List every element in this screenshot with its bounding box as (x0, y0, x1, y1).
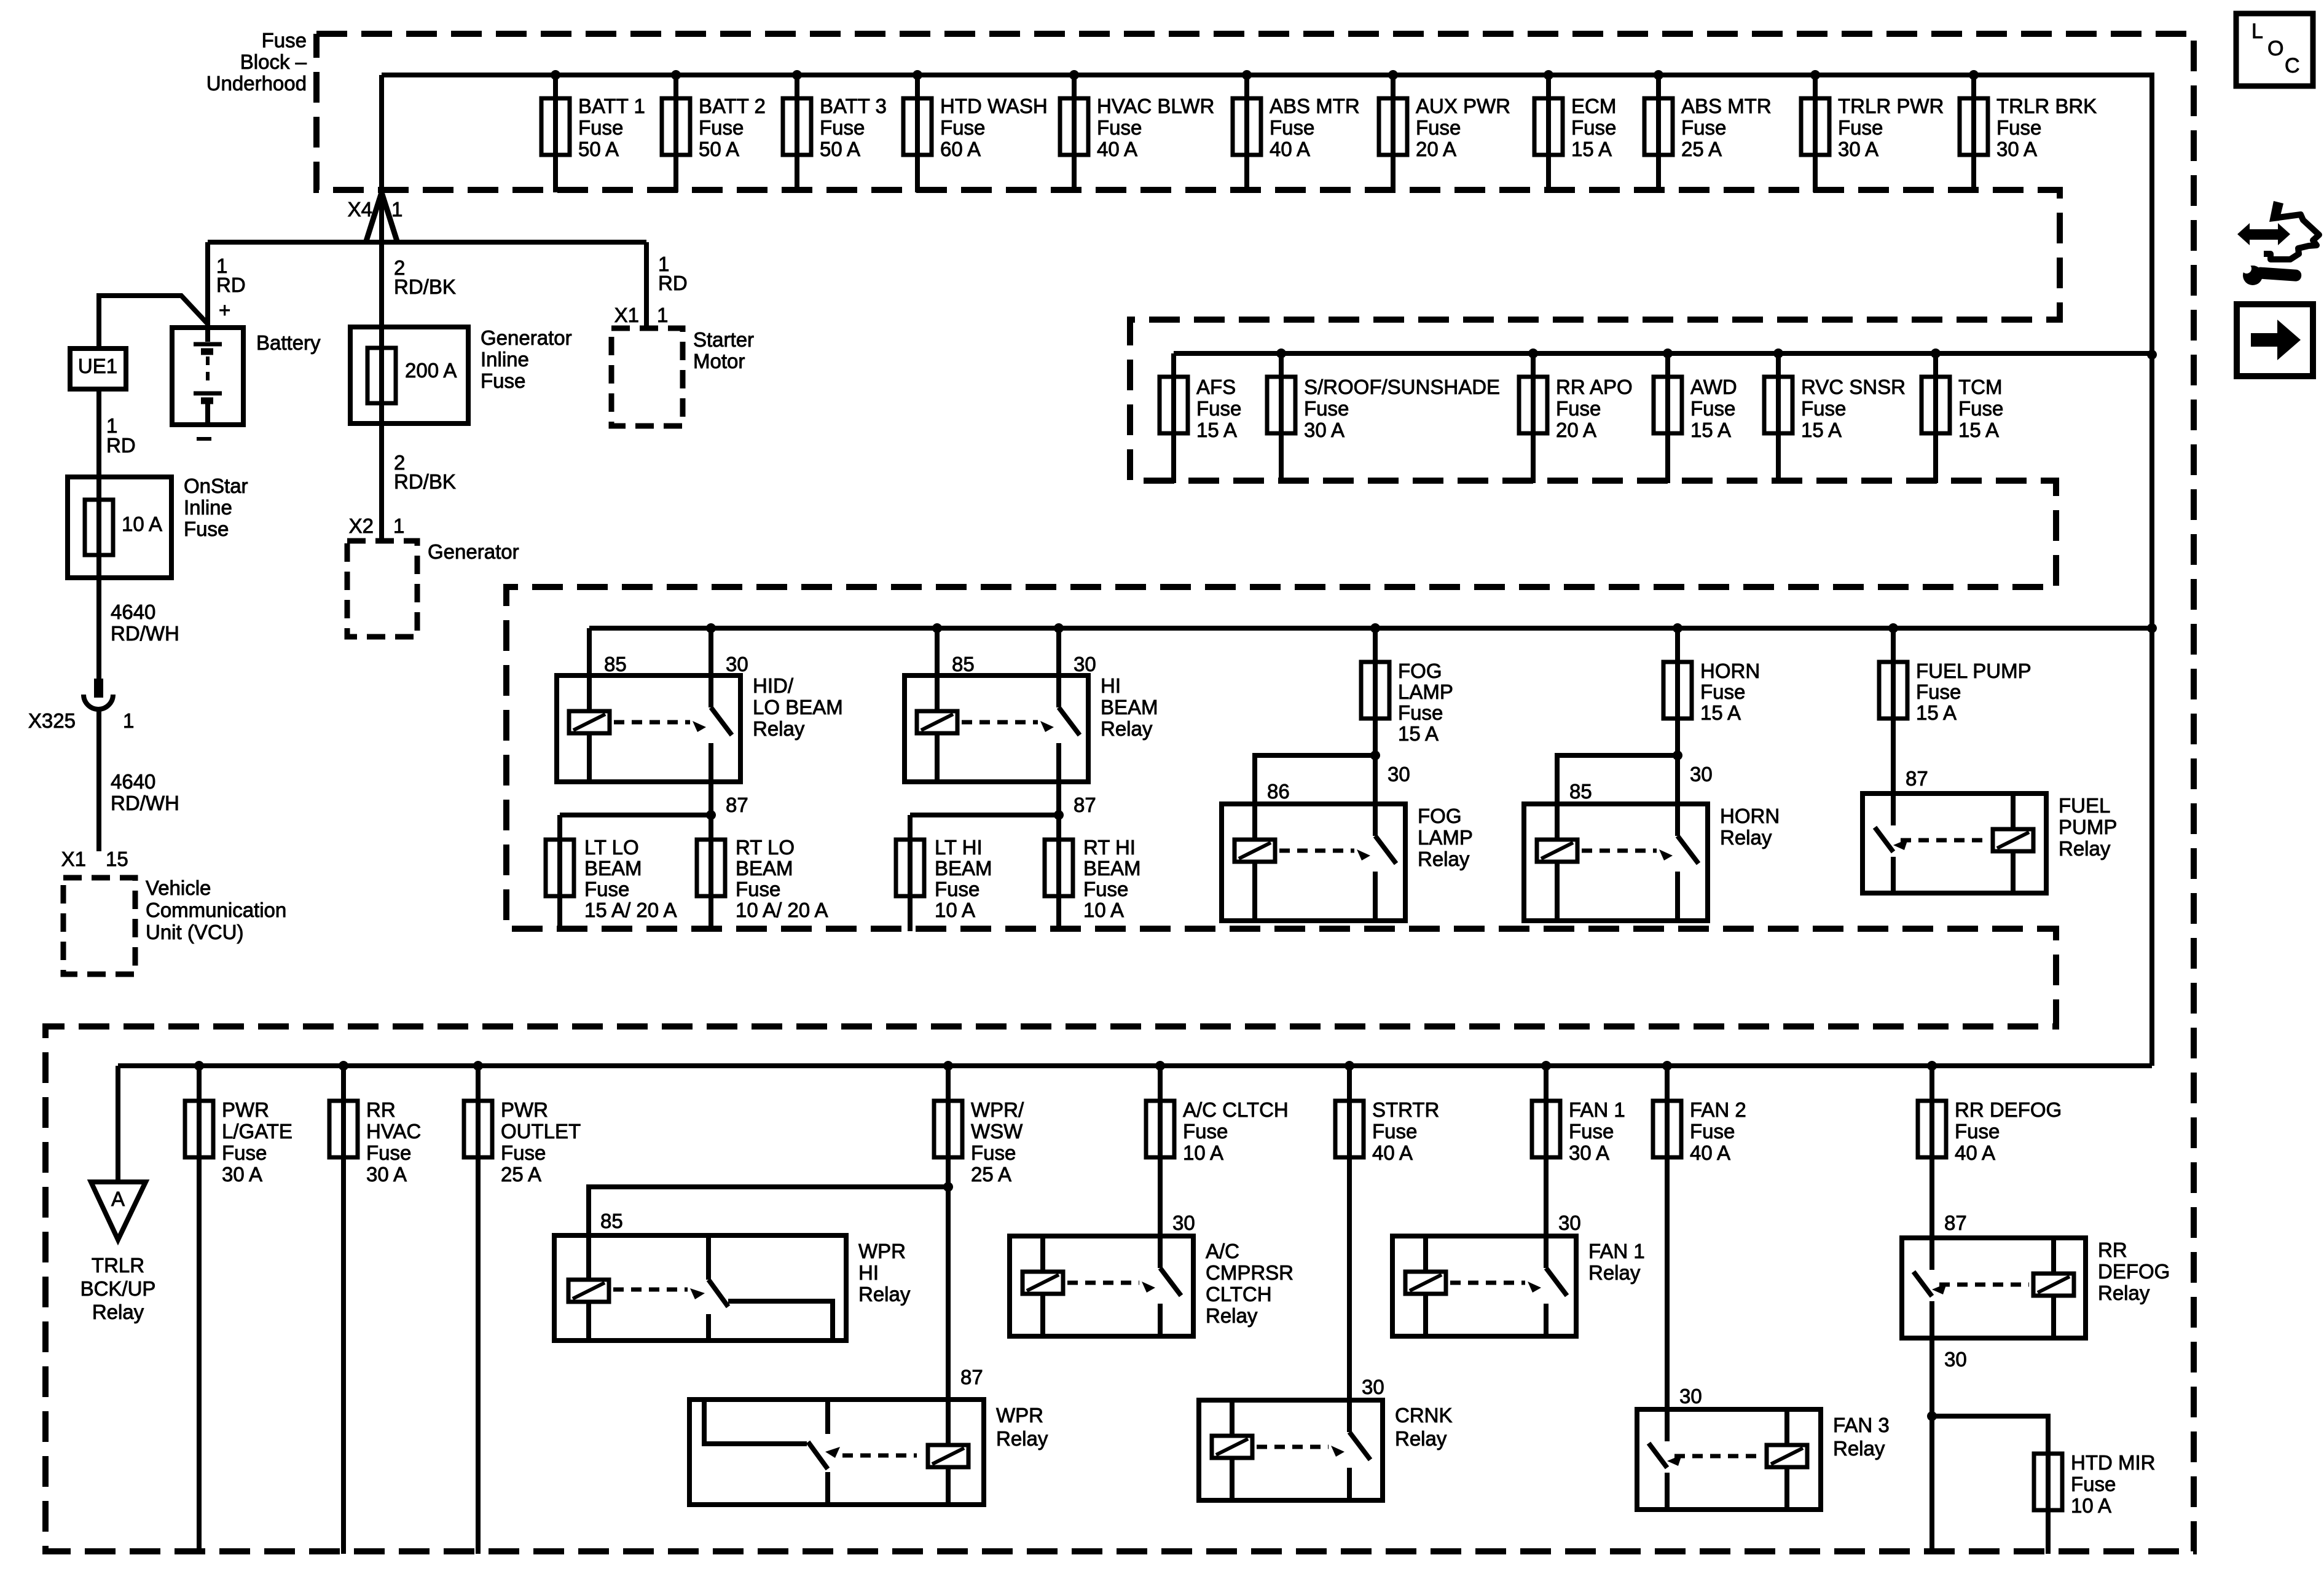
svg-text:Fuse: Fuse (1398, 701, 1443, 724)
svg-text:Relay: Relay (1206, 1304, 1258, 1327)
starter motor dashed box (611, 328, 683, 426)
svg-text:ABS MTR: ABS MTR (1270, 95, 1360, 117)
wire HTD MIR feeder (1932, 1416, 2048, 1554)
svg-text:STRTR: STRTR (1372, 1098, 1439, 1121)
fuse LT HI BEAM 10A (896, 815, 992, 931)
fuse AFS 15 A (1160, 353, 1241, 483)
svg-text:BATT 2: BATT 2 (699, 95, 766, 117)
svg-text:15 A: 15 A (1690, 419, 1731, 441)
svg-text:LAMP: LAMP (1398, 680, 1453, 703)
svg-text:Fuse: Fuse (366, 1141, 411, 1164)
wire battery drop (205, 242, 210, 328)
service icon double arrow (2237, 223, 2290, 245)
svg-text:CRNK: CRNK (1395, 1404, 1453, 1427)
fuse S/ROOF/SUNSHADE 30 A (1267, 348, 1500, 483)
svg-text:Fuse: Fuse (1690, 397, 1735, 420)
svg-text:RD: RD (106, 434, 136, 457)
svg-text:Fuse: Fuse (1916, 680, 1961, 703)
wire bottom bus (118, 1063, 2152, 1068)
svg-text:30: 30 (1679, 1385, 1702, 1408)
svg-text:Fuse: Fuse (935, 878, 979, 900)
svg-text:RT HI: RT HI (1083, 836, 1136, 859)
generator inline fuse 200A (367, 348, 457, 403)
relay FAN 3 internals (1649, 1409, 1807, 1510)
svg-text:1: 1 (123, 709, 134, 732)
svg-text:1: 1 (393, 514, 404, 537)
svg-text:C: C (2285, 54, 2300, 77)
svg-text:Relay: Relay (2059, 837, 2111, 860)
svg-text:CMPRSR: CMPRSR (1206, 1261, 1294, 1284)
svg-text:RR DEFOG: RR DEFOG (1955, 1098, 2062, 1121)
battery minus (197, 437, 211, 441)
svg-text:Fuse: Fuse (222, 1141, 267, 1164)
fuse RT LO BEAM 10A/20A (697, 815, 828, 931)
svg-text:Relay: Relay (1418, 848, 1470, 870)
relay CRNK internals (1212, 1400, 1370, 1500)
svg-text:ABS MTR: ABS MTR (1681, 95, 1772, 117)
fuse FUEL PUMP 15A (1879, 623, 2032, 793)
svg-text:Fuse: Fuse (1700, 680, 1745, 703)
svg-text:30 A: 30 A (222, 1163, 262, 1186)
svg-text:15 A: 15 A (1958, 419, 1999, 441)
svg-text:40 A: 40 A (1097, 138, 1137, 160)
svg-text:Fuse: Fuse (262, 29, 307, 52)
svg-text:Communication: Communication (146, 899, 286, 921)
generator inline fuse box (350, 327, 468, 423)
svg-text:WSW: WSW (971, 1120, 1023, 1143)
UE1 box (70, 348, 126, 389)
svg-text:Fuse: Fuse (1556, 397, 1601, 420)
relay FUEL PUMP box (1863, 793, 2046, 893)
svg-text:HI: HI (858, 1261, 879, 1284)
VCU dashed box (63, 878, 135, 974)
svg-text:LT LO: LT LO (584, 836, 639, 859)
relay FOG LAMP box (1222, 804, 1405, 921)
wire HI BEAM relay pin 30 (1054, 623, 1064, 675)
svg-text:BEAM: BEAM (1083, 857, 1141, 880)
svg-text:BATT 3: BATT 3 (820, 95, 887, 117)
svg-text:Fuse: Fuse (1372, 1120, 1417, 1143)
fuse A/C CLTCH 10A (1146, 1061, 1289, 1236)
fuse TRLR BRK 30 A (1960, 70, 2097, 192)
fuse RVC SNSR 15 A (1764, 348, 1906, 483)
relay FOG LAMP internals (1235, 804, 1396, 921)
wire UE1 to OnStar fuse (96, 389, 101, 682)
svg-text:Fuse: Fuse (481, 369, 525, 392)
svg-text:HI: HI (1101, 674, 1121, 697)
svg-text:50 A: 50 A (699, 138, 739, 160)
fuse STRTR 40A (1335, 1061, 1439, 1400)
svg-text:HORN: HORN (1700, 660, 1760, 682)
relay A/C CMPRSR CLTCH internals (1023, 1236, 1181, 1336)
svg-text:BEAM: BEAM (736, 857, 793, 880)
svg-text:X2: X2 (349, 514, 374, 537)
svg-text:Fuse: Fuse (1183, 1120, 1228, 1143)
svg-text:4640: 4640 (111, 770, 155, 793)
offpage arrow A TRLR BCK/UP (91, 1182, 146, 1240)
svg-text:Fuse: Fuse (584, 878, 629, 900)
svg-text:87: 87 (726, 793, 748, 816)
svg-text:4640: 4640 (111, 600, 155, 623)
svg-text:30: 30 (1362, 1376, 1384, 1398)
fuse ABS MTR 40 A (1233, 70, 1360, 192)
relay A/C CMPRSR CLTCH box (1010, 1236, 1193, 1336)
svg-text:Fuse: Fuse (1083, 878, 1128, 900)
relay HI BEAM internals (917, 675, 1080, 782)
svg-text:TCM: TCM (1958, 376, 2002, 398)
wire HID relay pin 87 (709, 782, 713, 815)
svg-text:Fuse: Fuse (1955, 1120, 2000, 1143)
svg-text:50 A: 50 A (578, 138, 619, 160)
svg-text:HID/: HID/ (753, 674, 794, 697)
svg-text:WPR/: WPR/ (971, 1098, 1024, 1121)
svg-text:Relay: Relay (1395, 1427, 1447, 1450)
svg-text:1: 1 (657, 304, 668, 326)
wire HORN relay pin 85 feeder (1557, 755, 1678, 804)
wire RR DEFOG pin 30 (1929, 1338, 1934, 1416)
svg-text:25 A: 25 A (971, 1163, 1011, 1186)
svg-text:AWD: AWD (1690, 376, 1737, 398)
relay CRNK box (1199, 1400, 1383, 1500)
svg-text:Fuse: Fuse (820, 116, 865, 139)
fuse FAN 1 30A (1532, 1061, 1625, 1236)
relay WPR HI box (554, 1235, 846, 1341)
battery internals (194, 328, 222, 425)
svg-text:LO BEAM: LO BEAM (753, 696, 843, 719)
wire X4 feed vertical (379, 75, 384, 541)
wire WPR HI relay pin 85 feeder (589, 1187, 948, 1235)
wire starter drop (644, 242, 649, 328)
wire HI BEAM relay pin 87 (1056, 782, 1061, 815)
svg-text:X1: X1 (614, 304, 639, 326)
svg-text:RD: RD (658, 272, 688, 294)
svg-text:FOG: FOG (1398, 660, 1442, 682)
svg-text:87: 87 (1906, 767, 1928, 790)
relay RR DEFOG box (1902, 1238, 2086, 1338)
svg-text:25 A: 25 A (501, 1163, 541, 1186)
svg-text:85: 85 (952, 653, 975, 675)
connector X4 chevron (366, 192, 397, 241)
svg-text:85: 85 (600, 1210, 623, 1232)
svg-text:BCK/UP: BCK/UP (80, 1277, 156, 1300)
svg-text:Relay: Relay (1833, 1437, 1885, 1460)
svg-text:15: 15 (106, 848, 128, 870)
svg-text:Fuse: Fuse (1097, 116, 1142, 139)
relay FAN 3 box (1637, 1409, 1821, 1510)
svg-text:FUEL: FUEL (2059, 794, 2110, 817)
svg-text:15 A: 15 A (1916, 701, 1957, 724)
svg-text:HTD WASH: HTD WASH (940, 95, 1048, 117)
fuse AUX PWR 20 A (1379, 70, 1510, 192)
fuse RR APO 20 A (1519, 348, 1633, 483)
svg-text:85: 85 (1569, 780, 1592, 803)
svg-text:15 A: 15 A (1398, 722, 1439, 745)
svg-text:85: 85 (604, 653, 627, 675)
wire HI BEAM fuse feeder (910, 810, 1064, 820)
fuse HVAC BLWR 40 A (1060, 70, 1214, 192)
svg-text:Fuse: Fuse (1681, 116, 1726, 139)
svg-text:Fuse: Fuse (1958, 397, 2003, 420)
fuse HTD MIR 10A (2034, 1451, 2155, 1517)
svg-text:RR APO: RR APO (1556, 376, 1633, 398)
svg-text:30: 30 (1944, 1348, 1967, 1371)
svg-text:30: 30 (1074, 653, 1096, 675)
svg-text:40 A: 40 A (1690, 1141, 1730, 1164)
relay HI BEAM box (905, 675, 1088, 782)
svg-text:WPR: WPR (996, 1404, 1043, 1427)
svg-text:30: 30 (1690, 763, 1713, 786)
svg-text:10 A: 10 A (122, 513, 162, 535)
svg-text:Relay: Relay (1101, 717, 1153, 740)
fuse RR HVAC (329, 1061, 421, 1554)
svg-text:Relay: Relay (753, 717, 805, 740)
wire RR DEFOG junction down (1929, 1416, 1934, 1554)
svg-text:PUMP: PUMP (2059, 816, 2117, 838)
svg-text:L: L (2251, 20, 2263, 43)
svg-text:Fuse: Fuse (1690, 1120, 1735, 1143)
svg-text:Underhood: Underhood (206, 72, 307, 95)
service icon part outline (2264, 201, 2319, 259)
wire HI BEAM relay pin 85 (932, 623, 942, 675)
fuse HTD WASH 60 A (903, 70, 1048, 192)
svg-text:Relay: Relay (996, 1427, 1048, 1450)
svg-text:Fuse: Fuse (699, 116, 744, 139)
relay FAN 1 box (1392, 1236, 1576, 1336)
fuse WPR/WSW 25A (934, 1061, 1024, 1400)
svg-text:Fuse: Fuse (501, 1141, 546, 1164)
fuse FAN 2 40A (1653, 1061, 1746, 1409)
svg-text:10 A: 10 A (2071, 1494, 2111, 1517)
node second row bus to right vertical (2147, 350, 2157, 360)
relay HORN internals (1537, 804, 1698, 921)
svg-text:AFS: AFS (1196, 376, 1236, 398)
svg-text:RR: RR (2098, 1238, 2127, 1261)
node FOG fuse junction (1370, 750, 1380, 760)
fuse RR DEFOG 40A (1918, 1061, 2062, 1238)
generator dashed box (347, 541, 417, 637)
svg-text:Fuse: Fuse (1196, 397, 1241, 420)
svg-text:+: + (219, 299, 230, 321)
svg-text:Fuse: Fuse (736, 878, 780, 900)
svg-text:10 A/ 20 A: 10 A/ 20 A (736, 899, 828, 921)
relay WPR box (689, 1400, 984, 1505)
svg-text:X325: X325 (28, 709, 76, 732)
fuse BATT 2 50 A (662, 70, 766, 192)
svg-text:Fuse: Fuse (1569, 1120, 1614, 1143)
svg-text:Fuse: Fuse (1571, 116, 1616, 139)
svg-text:RD: RD (216, 274, 246, 296)
svg-text:X1: X1 (61, 848, 86, 870)
svg-text:BEAM: BEAM (1101, 696, 1158, 719)
svg-text:10 A: 10 A (935, 899, 975, 921)
svg-text:RD/WH: RD/WH (111, 622, 179, 645)
OnStar inline fuse box (68, 477, 171, 578)
svg-text:BEAM: BEAM (935, 857, 992, 880)
node WPR/WSW junction (943, 1182, 953, 1192)
fuse TCM 15 A (1922, 348, 2003, 483)
wire right side vertical (2149, 73, 2154, 1066)
wire top bus (382, 73, 2152, 77)
next page arrow box (2237, 304, 2313, 376)
wire UE1 to battery (99, 296, 208, 348)
svg-text:50 A: 50 A (820, 138, 860, 160)
svg-text:RVC SNSR: RVC SNSR (1801, 376, 1906, 398)
fuse RT HI BEAM 10A (1045, 815, 1141, 931)
svg-text:10 A: 10 A (1183, 1141, 1223, 1164)
svg-text:CLTCH: CLTCH (1206, 1283, 1272, 1305)
relay WPR internals (704, 1400, 968, 1505)
svg-text:FAN 1: FAN 1 (1569, 1098, 1625, 1121)
service icon wrench (2242, 264, 2302, 285)
node RR DEFOG junction (1927, 1411, 1937, 1421)
svg-text:HVAC BLWR: HVAC BLWR (1097, 95, 1214, 117)
svg-text:Relay: Relay (2098, 1282, 2150, 1304)
svg-text:ECM: ECM (1571, 95, 1616, 117)
wire relay section bus (589, 626, 2152, 631)
svg-text:RD/BK: RD/BK (394, 470, 456, 493)
fuse FOG LAMP 15A (1361, 623, 1453, 804)
svg-text:Battery: Battery (256, 331, 321, 354)
fuse ABS MTR 25 A (1644, 70, 1772, 192)
wire TRLR BCK/UP drop (116, 1066, 120, 1184)
svg-text:40 A: 40 A (1372, 1141, 1413, 1164)
svg-text:X4: X4 (348, 198, 372, 221)
svg-text:Relay: Relay (1720, 826, 1772, 849)
svg-text:Fuse: Fuse (1304, 397, 1349, 420)
svg-text:30 A: 30 A (1569, 1141, 1609, 1164)
svg-text:UE1: UE1 (78, 355, 117, 377)
svg-text:WPR: WPR (858, 1240, 906, 1262)
svg-text:87: 87 (1074, 793, 1096, 816)
svg-text:DEFOG: DEFOG (2098, 1260, 2170, 1283)
svg-text:S/ROOF/SUNSHADE: S/ROOF/SUNSHADE (1304, 376, 1500, 398)
fuse AWD 15 A (1654, 348, 1737, 483)
svg-text:FUEL PUMP: FUEL PUMP (1916, 660, 2032, 682)
svg-text:RD/BK: RD/BK (394, 275, 456, 298)
svg-text:25 A: 25 A (1681, 138, 1722, 160)
svg-text:Fuse: Fuse (1801, 397, 1846, 420)
svg-text:Fuse: Fuse (1838, 116, 1883, 139)
svg-text:HORN: HORN (1720, 805, 1780, 827)
svg-text:30: 30 (1558, 1211, 1581, 1234)
svg-text:LAMP: LAMP (1418, 826, 1473, 849)
fuse TRLR PWR 30 A (1801, 70, 1944, 192)
wire HID relay pin 30 (706, 623, 716, 675)
fuse HORN 15A (1663, 623, 1760, 804)
svg-text:Fuse: Fuse (971, 1141, 1016, 1164)
svg-text:TRLR PWR: TRLR PWR (1838, 95, 1944, 117)
svg-text:PWR: PWR (501, 1098, 548, 1121)
svg-text:OnStar: OnStar (184, 474, 248, 497)
svg-text:A/C CLTCH: A/C CLTCH (1183, 1098, 1289, 1121)
svg-text:1: 1 (391, 198, 402, 221)
svg-text:Relay: Relay (92, 1301, 144, 1323)
OnStar inline fuse 10A (85, 500, 162, 555)
svg-text:15 A/ 20 A: 15 A/ 20 A (584, 899, 677, 921)
svg-text:15 A: 15 A (1801, 419, 1842, 441)
LOC reference box (2236, 14, 2313, 86)
svg-text:10 A: 10 A (1083, 899, 1124, 921)
connector X325 inline (84, 679, 113, 851)
svg-text:FAN 1: FAN 1 (1588, 1240, 1645, 1262)
relay HID/LO BEAM box (557, 675, 740, 782)
node relay bus to right vertical (2147, 623, 2157, 633)
svg-text:Relay: Relay (858, 1283, 911, 1305)
svg-text:30 A: 30 A (1996, 138, 2037, 160)
svg-text:Relay: Relay (1588, 1261, 1641, 1284)
svg-text:Starter: Starter (693, 328, 754, 351)
svg-text:Inline: Inline (481, 348, 529, 371)
svg-text:40 A: 40 A (1955, 1141, 1995, 1164)
svg-text:RR: RR (366, 1098, 396, 1121)
svg-text:Unit (VCU): Unit (VCU) (146, 921, 244, 943)
relay HID/LO BEAM internals (569, 675, 732, 782)
fuse BATT 1 50 A (541, 70, 645, 192)
svg-text:30: 30 (1388, 763, 1410, 786)
svg-text:Fuse: Fuse (2071, 1473, 2116, 1495)
svg-text:FAN 2: FAN 2 (1690, 1098, 1746, 1121)
relay RR DEFOG internals (1914, 1238, 2074, 1338)
svg-text:40 A: 40 A (1270, 138, 1310, 160)
svg-text:TRLR: TRLR (92, 1254, 144, 1277)
svg-text:LT HI: LT HI (935, 836, 983, 859)
relay WPR HI internals (568, 1235, 833, 1341)
svg-text:OUTLET: OUTLET (501, 1120, 581, 1143)
svg-text:Motor: Motor (693, 350, 745, 372)
svg-text:A/C: A/C (1206, 1240, 1239, 1262)
svg-text:TRLR BRK: TRLR BRK (1996, 95, 2097, 117)
svg-text:200 A: 200 A (405, 359, 457, 382)
node HORN fuse junction (1673, 750, 1682, 760)
svg-text:BATT 1: BATT 1 (578, 95, 645, 117)
fuse ECM 15 A (1534, 70, 1616, 192)
svg-text:O: O (2267, 37, 2283, 60)
svg-text:87: 87 (960, 1366, 983, 1388)
svg-text:RT LO: RT LO (736, 836, 795, 859)
svg-text:FOG: FOG (1418, 805, 1462, 827)
svg-text:15 A: 15 A (1196, 419, 1237, 441)
svg-text:30: 30 (726, 653, 748, 675)
battery box (172, 328, 243, 425)
svg-text:FAN 3: FAN 3 (1833, 1414, 1890, 1436)
wire HID relay pin 85 (587, 628, 592, 675)
svg-text:30 A: 30 A (1304, 419, 1345, 441)
svg-text:30 A: 30 A (1838, 138, 1878, 160)
svg-text:15 A: 15 A (1571, 138, 1612, 160)
svg-text:30: 30 (1172, 1211, 1195, 1234)
relay HORN box (1524, 804, 1708, 921)
svg-text:30 A: 30 A (366, 1163, 407, 1186)
svg-text:20 A: 20 A (1416, 138, 1456, 160)
wire second row bus (1174, 351, 2152, 356)
svg-text:60 A: 60 A (940, 138, 981, 160)
svg-text:BEAM: BEAM (584, 857, 642, 880)
relay FAN 1 internals (1405, 1236, 1567, 1336)
svg-text:HTD MIR: HTD MIR (2071, 1451, 2155, 1474)
svg-text:86: 86 (1267, 780, 1290, 803)
fuse PWR L/GATE (185, 1061, 292, 1554)
wire LO BEAM fuse feeder (560, 810, 716, 820)
fuse PWR OUTLET (464, 1061, 581, 1554)
svg-text:HVAC: HVAC (366, 1120, 421, 1143)
svg-text:Vehicle: Vehicle (146, 876, 211, 899)
svg-text:RD/WH: RD/WH (111, 792, 179, 814)
svg-text:Fuse: Fuse (578, 116, 623, 139)
relay FUEL PUMP internals (1875, 793, 2033, 893)
svg-text:Generator: Generator (428, 540, 519, 563)
svg-text:15 A: 15 A (1700, 701, 1741, 724)
fuse BATT 3 50 A (783, 70, 887, 192)
